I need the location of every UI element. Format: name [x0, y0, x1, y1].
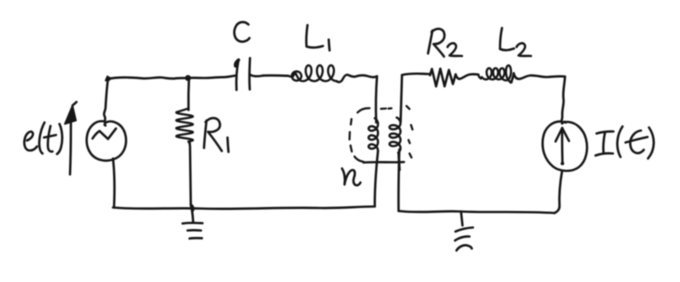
wire source I bottom [555, 172, 563, 214]
transformer T1 left winding [369, 118, 378, 151]
wire source top [104, 79, 108, 122]
wire left winding bottom [375, 151, 378, 207]
wire R2 to L2 [456, 74, 479, 79]
arrow beside e(t) [65, 102, 77, 175]
node corner top-left [106, 76, 111, 81]
label R1 [204, 118, 229, 152]
wire right vertical to source [562, 77, 566, 122]
label n [342, 169, 361, 186]
label e(t) [24, 123, 62, 155]
resistor R1 [176, 109, 193, 144]
voltage source e(t) [87, 121, 126, 160]
wire bottom rail right [399, 211, 555, 213]
transformer core common line [364, 161, 405, 164]
wire left winding top [376, 76, 377, 122]
label R2 [428, 29, 462, 57]
wire top rail left [108, 77, 228, 79]
wire R1 bottom [190, 143, 191, 206]
capacitor C [228, 58, 263, 90]
resistor R2 [430, 69, 456, 87]
label L2 [500, 28, 531, 56]
wire L2 to corner [511, 73, 565, 82]
wire L1 to transformer corner [337, 75, 377, 82]
current source I(t) [543, 121, 587, 170]
transformer right winding bottom tick [399, 154, 400, 170]
ground left tick [192, 206, 193, 212]
label I(t) [596, 127, 654, 159]
wire right winding top [401, 75, 402, 122]
ground left stem [191, 205, 193, 223]
ground right stem [461, 212, 463, 226]
wire bottom rail left [113, 207, 375, 209]
node junction R1 top [185, 75, 191, 81]
wire R1 top [187, 78, 190, 110]
ground right bars [455, 228, 473, 251]
inductor L1 [288, 65, 337, 81]
wire C to L1 [263, 74, 288, 77]
inductor L2 [478, 65, 511, 82]
label L1 [306, 25, 329, 51]
transformer dashed boundary [350, 106, 413, 162]
wire right winding bottom [397, 150, 400, 212]
label C [234, 22, 249, 42]
wire top rail right [402, 74, 431, 75]
wire source bottom [113, 159, 114, 208]
transformer T1 right winding [390, 118, 401, 153]
ground left bars [183, 223, 203, 239]
